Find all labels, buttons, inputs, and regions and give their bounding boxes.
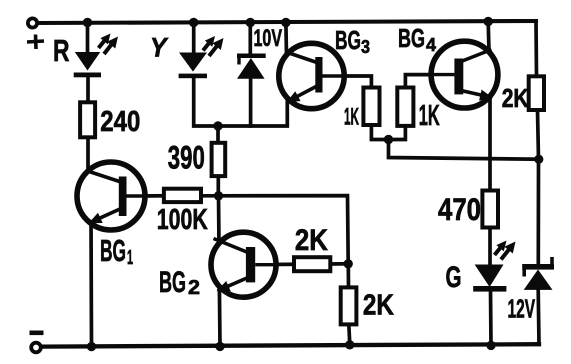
svg-text:2K: 2K xyxy=(295,224,329,257)
node dot top rail x=488 xyxy=(484,17,493,26)
transistor BG3 xyxy=(279,43,345,108)
wire G LED cathode to bottom rail xyxy=(489,290,493,345)
wire BG3 base right and down to 1K left resistor xyxy=(320,76,371,88)
terminal + (top left) xyxy=(28,18,37,27)
resistor 390 xyxy=(212,143,226,176)
LED G (green) xyxy=(473,241,515,292)
terminal - (bottom left) xyxy=(31,343,41,353)
svg-text:1K: 1K xyxy=(419,100,440,132)
plus sign xyxy=(27,35,44,50)
node dot top rail x=87 xyxy=(83,18,92,27)
svg-text:390: 390 xyxy=(168,140,205,176)
svg-text:2: 2 xyxy=(188,277,200,299)
node dot top rail x=286 xyxy=(281,18,290,27)
wire BG1 emitter to bottom rail xyxy=(89,216,93,347)
resistor 240 xyxy=(80,102,95,137)
resistor 1K (left) xyxy=(363,88,379,126)
wire right edge: node J159 down to 12V zener xyxy=(536,159,540,264)
svg-text:2K: 2K xyxy=(363,290,394,322)
wire node J196 down through BG2 to bottom rail xyxy=(219,196,221,347)
wire R LED anode from top rail xyxy=(86,23,90,54)
wire BG3 collector to top rail xyxy=(284,23,288,57)
wire right edge: 12V zener to bottom-right corner xyxy=(536,289,540,344)
zener diode 12V xyxy=(522,257,554,290)
node dot J126 bus to 390 xyxy=(213,121,222,130)
wire Y LED anode from top rail xyxy=(192,23,196,54)
wire 10V zener top from rail xyxy=(248,23,252,56)
wire BG1 base to 100K xyxy=(140,194,165,198)
wire 100K to node J196 xyxy=(200,194,219,198)
svg-text:BG: BG xyxy=(100,233,126,268)
node dot bottom rail x=349 xyxy=(345,340,354,349)
wire node J264 to vertical 2K resistor xyxy=(346,264,350,288)
svg-text:Y: Y xyxy=(150,33,169,63)
resistor 2K (horizontal, BG2 collector) xyxy=(294,257,330,271)
node dot top rail x=250 xyxy=(246,18,255,27)
svg-text:12V: 12V xyxy=(508,295,536,323)
LED Y (yellow) xyxy=(179,36,224,78)
wire R LED cathode to 240 resistor xyxy=(86,76,90,102)
svg-text:1K: 1K xyxy=(344,104,359,131)
svg-text:100K: 100K xyxy=(157,204,208,236)
svg-text:BG: BG xyxy=(335,25,361,55)
wire BG4 emitter down through crossing to 470 resistor xyxy=(488,94,492,191)
transistor BG1 xyxy=(77,162,146,230)
wire 1K right bottom to node J140 xyxy=(389,126,406,140)
wire right edge: top corner to 2K top xyxy=(534,21,538,76)
wire 2K horizontal resistor to node J264 xyxy=(330,262,348,266)
node dot bottom rail x=220 xyxy=(215,342,224,351)
wire node J140 down and right to node J159 xyxy=(389,140,539,160)
resistor 2K (vertical) xyxy=(341,287,357,324)
LED R (red) xyxy=(74,34,118,78)
wire 10V zener bottom to bus xyxy=(249,78,253,127)
svg-text:4: 4 xyxy=(426,35,436,55)
svg-text:R: R xyxy=(53,33,70,68)
wire right edge: 2K bottom to node J159 xyxy=(538,110,539,159)
svg-text:1: 1 xyxy=(127,247,133,269)
svg-text:2K: 2K xyxy=(502,83,529,113)
wire vertical 2K resistor to bottom rail xyxy=(349,324,350,344)
wire 470 resistor to G LED xyxy=(488,228,492,266)
svg-text:240: 240 xyxy=(100,106,140,138)
transistor BG4 xyxy=(431,41,498,108)
wire 1K left bottom to node J140 xyxy=(371,125,388,140)
svg-text:3: 3 xyxy=(361,37,370,57)
zener diode 10V xyxy=(237,54,266,79)
node dot bottom rail x=491 xyxy=(486,341,495,350)
wire 240 resistor to BG1 collector xyxy=(86,137,90,176)
wire BG4 base left and down to 1K right resistor xyxy=(405,75,457,88)
wire 390 resistor to node J196 xyxy=(216,176,220,196)
wire BG2 base to 2K resistor xyxy=(252,262,295,266)
node dot J140 1K junction xyxy=(384,135,393,144)
svg-text:BG: BG xyxy=(159,266,186,299)
node dot J159 right edge xyxy=(534,155,543,164)
node dot J196 100K junction xyxy=(214,191,223,200)
svg-text:470: 470 xyxy=(438,191,481,227)
node dot top rail x=194 xyxy=(189,18,198,27)
wire BG4 collector to top rail xyxy=(486,22,490,53)
wire bottom rail xyxy=(41,344,539,346)
transistor BG2 xyxy=(211,232,276,297)
wire Y LED cathode down and horizontal bus to BG3 emitter xyxy=(194,77,288,126)
svg-text:G: G xyxy=(446,261,462,294)
resistor 1K (right) xyxy=(397,88,413,126)
wire top rail xyxy=(37,21,536,23)
wire node J196 right and down to node J264 xyxy=(219,196,349,264)
resistor 100K xyxy=(164,189,201,202)
svg-text:10V: 10V xyxy=(254,25,283,52)
node dot bottom rail x=91 xyxy=(87,342,96,351)
node dot J264 2K junction xyxy=(344,259,353,268)
resistor 2K (right edge) xyxy=(529,76,544,110)
minus sign xyxy=(30,331,44,336)
svg-text:BG: BG xyxy=(398,23,425,53)
resistor 470 xyxy=(482,191,498,228)
wire node J126 to 390 resistor xyxy=(216,126,220,143)
